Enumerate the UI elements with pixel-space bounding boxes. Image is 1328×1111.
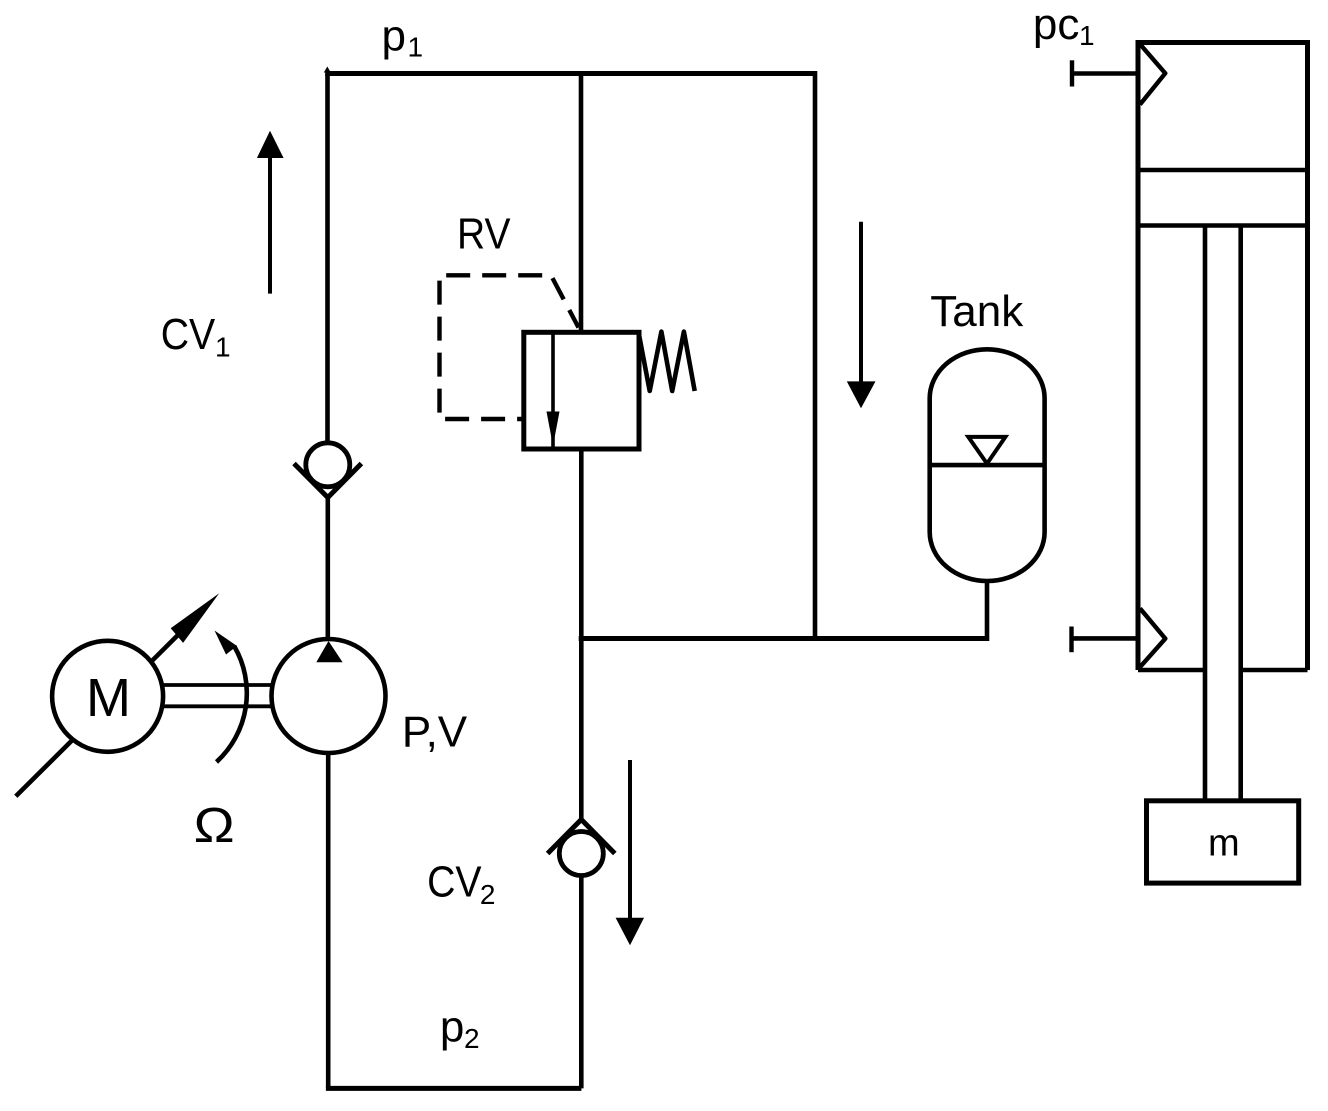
svg-text:p: p bbox=[440, 1002, 464, 1051]
port line top with tick bbox=[1070, 60, 1074, 86]
piston rod left line bbox=[1203, 226, 1208, 802]
svg-text:2: 2 bbox=[464, 1023, 480, 1054]
RV spring bbox=[639, 332, 695, 391]
svg-text:2: 2 bbox=[480, 879, 496, 910]
RV dashed pilot line bbox=[440, 275, 579, 419]
svg-text:Tank: Tank bbox=[930, 287, 1024, 336]
wire RV line top bbox=[579, 74, 584, 333]
svg-text:RV: RV bbox=[457, 210, 511, 259]
svg-text:1: 1 bbox=[408, 31, 424, 62]
mass block m bbox=[1147, 801, 1299, 883]
wire pump bottom bbox=[326, 753, 331, 1088]
flow arrow CV1 (up) bbox=[268, 156, 272, 294]
wire top p1 line bbox=[325, 71, 815, 76]
svg-text:1: 1 bbox=[215, 331, 231, 362]
motor M circle bbox=[52, 641, 163, 752]
rotation arc bbox=[217, 646, 247, 762]
svg-text:M: M bbox=[86, 668, 131, 728]
relief valve RV square bbox=[524, 332, 639, 449]
rotation arrowhead bbox=[215, 631, 238, 655]
wire bottom horizontal bbox=[326, 1086, 582, 1091]
wire left vertical upper bbox=[325, 74, 330, 443]
cylinder left wall bbox=[1136, 40, 1141, 670]
svg-text:CV: CV bbox=[427, 858, 482, 907]
flow arrow down 1 bbox=[859, 222, 863, 383]
tank stem wire bbox=[985, 581, 990, 641]
cylinder right wall bbox=[1305, 40, 1310, 670]
variable displacement arrow (under motor circle) bbox=[16, 628, 185, 796]
svg-text:Ω: Ω bbox=[194, 799, 235, 854]
svg-text:pc: pc bbox=[1033, 0, 1079, 49]
piston bottom line bbox=[1138, 223, 1308, 228]
svg-text:1: 1 bbox=[1079, 20, 1095, 51]
check valve CV1 bbox=[306, 443, 350, 487]
check valve CV2 bbox=[548, 820, 582, 854]
wire RV bottom to CV2 bbox=[579, 449, 584, 820]
wire below CV2 bbox=[579, 876, 584, 1089]
pump P circle bbox=[272, 639, 386, 753]
tank gas triangle bbox=[968, 437, 1005, 464]
tank midline bbox=[930, 463, 1045, 468]
port chevron bottom bbox=[1140, 608, 1165, 667]
piston top line bbox=[1138, 168, 1308, 173]
port chevron top bbox=[1140, 44, 1165, 104]
cylinder bottom edges bbox=[1138, 668, 1203, 673]
svg-text:m: m bbox=[1208, 823, 1240, 865]
svg-text:P,V: P,V bbox=[402, 708, 468, 757]
svg-text:p: p bbox=[382, 12, 406, 61]
tank accumulator capsule bbox=[930, 349, 1045, 581]
junction wire to tank bbox=[579, 636, 987, 641]
port line bottom with tick bbox=[1069, 627, 1073, 653]
RV inner line with arrow (down) bbox=[551, 334, 555, 447]
wire left vertical lower bbox=[325, 498, 330, 640]
cylinder top edge bbox=[1138, 40, 1308, 45]
node p1 corner tick bbox=[324, 67, 331, 73]
pump triangle bbox=[316, 641, 342, 662]
piston rod right line bbox=[1238, 226, 1243, 802]
flow arrow down 2 bbox=[628, 760, 632, 919]
svg-text:CV: CV bbox=[161, 310, 216, 359]
shaft between motor and pump bbox=[163, 683, 271, 687]
wire right vertical bbox=[813, 71, 818, 639]
